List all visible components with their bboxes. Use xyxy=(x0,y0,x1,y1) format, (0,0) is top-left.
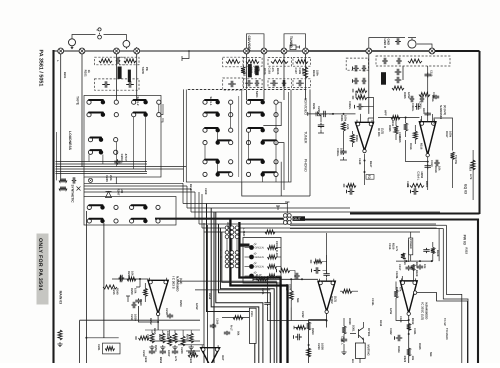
switch S6 row y221 xyxy=(130,219,161,223)
switch S6 row y207.4 xyxy=(130,205,161,209)
svg-text:R101: R101 xyxy=(83,70,87,77)
wire op5 right out xyxy=(417,293,468,363)
resistor R324 vertical xyxy=(407,348,411,356)
wire ic303b input xyxy=(186,350,200,352)
capacitor bottom row c xyxy=(172,350,178,355)
wire jack down xyxy=(246,54,248,100)
capacitor upper box out R xyxy=(412,188,419,194)
wire stair 6 xyxy=(219,224,271,363)
svg-text:S201: S201 xyxy=(255,91,259,98)
wire bank D right jog b xyxy=(278,143,284,196)
resistor R330 vertical xyxy=(342,326,346,334)
svg-text:C231: C231 xyxy=(261,288,264,295)
wire jack1 down xyxy=(60,54,62,180)
svg-text:R301: R301 xyxy=(340,115,343,122)
svg-text:R316: R316 xyxy=(409,143,412,150)
label connector pins xyxy=(241,244,250,247)
svg-text:10/50: 10/50 xyxy=(321,343,324,350)
resistor R302 vertical xyxy=(342,122,346,131)
svg-text:R106: R106 xyxy=(263,68,266,75)
capacitor C111 xyxy=(353,65,359,71)
capacitor C311 v xyxy=(341,337,347,343)
capacitor C103 xyxy=(245,80,253,86)
svg-text:R317: R317 xyxy=(445,131,448,138)
capacitor C313 h xyxy=(434,160,440,166)
svg-text:47k: 47k xyxy=(257,67,260,72)
wire bank D col to input line xyxy=(263,177,276,183)
svg-text:R319: R319 xyxy=(469,164,472,171)
capacitor chain C310 xyxy=(425,72,431,77)
svg-text:C232: C232 xyxy=(301,311,304,318)
resistor R326 vertical xyxy=(411,265,415,271)
diode input xyxy=(316,112,321,116)
svg-text:1k: 1k xyxy=(87,70,91,74)
capacitor C232 vertical xyxy=(264,301,270,307)
capacitor C112 xyxy=(362,65,367,71)
resistor R319 vertical xyxy=(471,160,475,170)
svg-text:C233: C233 xyxy=(317,343,320,350)
resistor R103 xyxy=(246,60,259,64)
wire connector hook up xyxy=(276,202,290,214)
svg-text:R213: R213 xyxy=(189,184,192,191)
dashed box tape rec network L xyxy=(95,57,126,65)
wire r304 xyxy=(344,131,353,149)
capacitor C201 xyxy=(116,58,121,64)
wire bank D col1 down xyxy=(248,132,250,159)
jack J107 xyxy=(281,48,287,54)
capacitor bottom row b xyxy=(160,350,166,355)
switch S3 row y142.6 xyxy=(203,140,233,144)
wire led row xyxy=(277,275,282,277)
wire bank C inner links xyxy=(205,132,218,172)
wire led row xyxy=(277,256,282,258)
box inner connector label xyxy=(249,308,256,343)
term r266 xyxy=(310,260,312,264)
switch S3 row y130.2 xyxy=(203,128,233,132)
svg-text:10k: 10k xyxy=(438,166,441,171)
resistor R112 xyxy=(408,59,422,63)
resistor R313 vertical xyxy=(404,123,408,131)
switch S3 row y161.8 xyxy=(203,160,233,164)
node ic303 in xyxy=(139,278,141,280)
box C221 xyxy=(103,343,121,354)
capacitor C107 xyxy=(296,80,304,86)
capacitor bottom row a xyxy=(149,350,155,355)
resistor R249 xyxy=(127,277,136,281)
resistor R111 xyxy=(356,89,367,93)
wire rail ic303 b xyxy=(195,289,270,291)
resistor R262 vertical xyxy=(289,291,293,300)
muting plug box xyxy=(290,45,296,50)
terminal r263 xyxy=(294,326,302,330)
resistor R202 xyxy=(124,59,136,63)
box main lower xyxy=(80,320,200,363)
wire op2 right xyxy=(434,118,453,151)
svg-text:PHONO: PHONO xyxy=(304,159,308,172)
svg-text:P301: P301 xyxy=(250,311,253,317)
svg-text:10/50: 10/50 xyxy=(134,314,137,321)
switch S4 row y102.2 xyxy=(246,100,278,104)
svg-text:C109: C109 xyxy=(298,68,301,75)
wire led left xyxy=(245,256,250,258)
terminal tone input xyxy=(307,112,309,116)
svg-text:C302L: C302L xyxy=(348,101,351,110)
svg-text:220k: 220k xyxy=(316,70,319,76)
switch S2 row y114.7 xyxy=(132,113,161,117)
term c322 xyxy=(394,336,396,340)
capacitor C115 xyxy=(382,58,388,64)
capacitor R249b xyxy=(103,285,117,289)
node op5 a xyxy=(408,319,410,321)
connector CN702 bus plug xyxy=(283,214,287,218)
svg-text:FROM D 407: FROM D 407 xyxy=(275,241,278,258)
svg-text:C303: C303 xyxy=(359,92,362,99)
svg-text:TUNER: TUNER xyxy=(304,131,308,144)
svg-text:R240: R240 xyxy=(139,299,142,306)
dashed box tape2 pb xyxy=(223,78,243,90)
svg-text:C314 L: C314 L xyxy=(417,171,420,180)
capacitor C118 xyxy=(395,77,402,83)
wire led left xyxy=(245,266,250,268)
resistor led R401 xyxy=(268,246,277,250)
label box mute L xyxy=(118,67,122,79)
switch S2 row y102.2 xyxy=(132,100,161,104)
svg-text:R325: R325 xyxy=(418,343,421,350)
svg-text:I C 303 S: I C 303 S xyxy=(172,276,176,289)
svg-text:C260: C260 xyxy=(216,318,219,325)
svg-text:C323: C323 xyxy=(399,316,402,323)
resistor R314 vertical xyxy=(413,131,417,140)
wire mesh to tone input xyxy=(329,113,333,115)
wire bus lower segment xyxy=(84,191,195,193)
wire jack3 down xyxy=(116,54,118,100)
resistor R205 xyxy=(226,60,240,64)
bracket CD/VIDEO jacks xyxy=(247,34,265,48)
svg-text:2.2k: 2.2k xyxy=(346,124,349,130)
wire left main border xyxy=(52,50,54,363)
svg-text:R318: R318 xyxy=(434,166,437,173)
svg-text:10/50: 10/50 xyxy=(403,258,406,265)
resistor R322 vertical xyxy=(431,247,435,253)
wire main h xyxy=(86,337,118,339)
svg-text:C401: C401 xyxy=(406,181,409,188)
wire nested inner right b xyxy=(443,229,468,364)
wire input ic302 xyxy=(253,278,318,280)
wire stair 7 xyxy=(220,228,274,363)
op-amp IC302 xyxy=(318,279,335,314)
resistor R111b xyxy=(356,96,367,100)
svg-text:10k: 10k xyxy=(411,356,414,361)
node ic302 a xyxy=(267,278,269,280)
svg-text:C209: C209 xyxy=(204,188,207,195)
svg-text:C216: C216 xyxy=(130,314,133,321)
svg-text:RY301: RY301 xyxy=(367,328,370,337)
capacitor C206 xyxy=(228,81,236,87)
resistor R323 vertical xyxy=(407,323,411,330)
label OUT black box xyxy=(293,216,306,221)
wire lower box top right thick xyxy=(304,220,478,364)
wire ic302 down xyxy=(309,320,327,364)
svg-text:L-SUR: L-SUR xyxy=(242,228,245,236)
svg-text:C220: C220 xyxy=(180,347,183,354)
svg-text:R258: R258 xyxy=(208,293,211,300)
capacitor C302 vertical xyxy=(318,123,324,129)
svg-text:MUTING: MUTING xyxy=(351,359,354,363)
resistor low3 vertical xyxy=(168,336,172,346)
svg-text:(2) (1/2): (2) (1/2) xyxy=(443,105,447,115)
resistor low5 vertical xyxy=(181,336,185,346)
label box tape2 a xyxy=(248,64,252,77)
resistor low2 vertical xyxy=(161,333,165,343)
wire r260 xyxy=(290,271,295,280)
wire bus segment xyxy=(56,168,148,170)
op-amp IC303a xyxy=(148,278,168,316)
capacitor C314 xyxy=(425,164,431,170)
svg-text:R322: R322 xyxy=(464,247,467,254)
node hpf xyxy=(405,117,407,119)
capacitor C119 xyxy=(357,104,364,110)
wire bus corner down xyxy=(194,192,196,219)
capacitor C113 xyxy=(353,78,359,84)
svg-text:R231: R231 xyxy=(312,103,315,110)
capacitor C319 v xyxy=(417,264,423,270)
svg-text:R329: R329 xyxy=(415,270,418,277)
svg-text:C320L: C320L xyxy=(395,271,398,279)
svg-text:LOUDNESS: LOUDNESS xyxy=(68,131,72,151)
svg-text:IC 301C (1/2): IC 301C (1/2) xyxy=(421,302,425,320)
svg-text:10k: 10k xyxy=(131,271,134,276)
wire right border upper box xyxy=(479,51,481,214)
wire phono load down xyxy=(402,66,404,80)
resistor ic303b in xyxy=(188,353,198,357)
wire bus A xyxy=(183,203,287,205)
led D403 xyxy=(249,264,254,269)
wire r322 xyxy=(432,242,434,261)
svg-text:56k: 56k xyxy=(237,331,240,336)
resistor R311 xyxy=(391,116,400,120)
svg-text:1/2W: 1/2W xyxy=(407,92,410,99)
svg-text:R249: R249 xyxy=(116,288,119,295)
wire connector inner links xyxy=(227,239,237,251)
svg-text:ONLY FOR PA 3504: ONLY FOR PA 3504 xyxy=(37,238,43,291)
dashed box phono load xyxy=(376,56,450,66)
svg-text:C101: C101 xyxy=(250,67,253,74)
svg-text:C322: C322 xyxy=(389,328,392,335)
jack J104 xyxy=(134,48,140,54)
capacitor C234 v xyxy=(323,272,329,277)
connector pins cluster2 xyxy=(225,251,229,255)
svg-text:C223: C223 xyxy=(189,357,192,363)
wire label box down xyxy=(410,232,412,261)
wire hook gnd tap xyxy=(182,51,189,61)
wire bottom h341 xyxy=(150,340,200,342)
resistor R107 xyxy=(296,60,309,64)
vertical label box power xyxy=(409,238,413,255)
wire fb ic303 xyxy=(139,306,159,330)
led D404 xyxy=(249,274,254,279)
capacitor C204 xyxy=(126,81,134,87)
resistor led R402 xyxy=(268,255,277,259)
svg-text:R109: R109 xyxy=(312,70,315,77)
svg-text:C103: C103 xyxy=(268,68,271,75)
wire c302 xyxy=(318,114,324,133)
wire p301 row xyxy=(222,317,249,319)
switch S4 row y174.4 xyxy=(246,172,278,176)
wire bus segment xyxy=(56,161,148,163)
wire r251 xyxy=(136,279,145,302)
resistor R321 vertical xyxy=(401,253,405,259)
wire ic302 fb xyxy=(268,279,327,320)
svg-text:R324: R324 xyxy=(397,346,400,353)
switch S5 row y207.4 xyxy=(87,205,118,209)
svg-text:56k: 56k xyxy=(296,298,299,303)
svg-text:TO MAIN: TO MAIN xyxy=(445,328,448,340)
resistor low4 vertical xyxy=(173,333,177,343)
resistor R201 xyxy=(99,59,112,63)
svg-text:PB: PB xyxy=(145,67,149,71)
switch S4 row y142.6 xyxy=(246,140,278,144)
svg-text:R311: R311 xyxy=(391,120,394,127)
transistor Q301 xyxy=(350,328,364,340)
capacitor C116 xyxy=(396,58,402,64)
wire stair 5 xyxy=(216,212,263,363)
wire switch bank C col3 down xyxy=(230,104,232,128)
wire ladder to op1 plus xyxy=(363,98,374,125)
jack J103 xyxy=(114,48,120,54)
wire bank D right jog a xyxy=(263,102,281,125)
terminal stub left ic303 xyxy=(126,296,130,302)
svg-text:C218: C218 xyxy=(165,308,168,315)
wire lower box top/bus thick xyxy=(155,218,283,220)
switch S4 row y161.8 xyxy=(246,160,278,164)
box separator switch mid xyxy=(241,89,243,182)
resistor R105 xyxy=(271,60,288,64)
jack J105 xyxy=(244,48,250,54)
wire led left xyxy=(245,275,250,277)
switch S3 row y102.2 xyxy=(203,100,233,104)
capacitor strip a xyxy=(210,324,216,329)
wire op5 top xyxy=(402,240,413,281)
wire bus corner down xyxy=(186,186,188,208)
wire bus B xyxy=(187,207,350,209)
wire bottom edge upper box xyxy=(350,213,480,215)
wire top right thick xyxy=(306,50,432,52)
svg-text:R401: R401 xyxy=(425,181,428,188)
capacitor C231 h xyxy=(294,273,300,279)
wire op5 fb down xyxy=(408,315,410,363)
svg-text:C321: C321 xyxy=(413,328,416,335)
wire input ic303 xyxy=(112,278,149,280)
resistor R206 vertical xyxy=(241,67,245,74)
resistor R304 vertical xyxy=(351,134,355,143)
wire r262 xyxy=(290,279,292,307)
svg-text:POWER: POWER xyxy=(409,239,412,249)
svg-text:47k: 47k xyxy=(271,68,274,73)
resistor upper box out L xyxy=(346,184,356,188)
svg-text:2.2k: 2.2k xyxy=(109,175,113,181)
capacitor bottom row d xyxy=(188,350,194,355)
wire op1 inputs xyxy=(361,114,374,122)
terminal ladder stubs xyxy=(352,67,354,71)
svg-text:R303: R303 xyxy=(354,91,357,98)
capacitor C117 xyxy=(395,69,402,75)
resistor R245 xyxy=(59,178,67,182)
svg-text:C248: C248 xyxy=(358,158,361,165)
svg-text:HPF: HPF xyxy=(384,110,388,116)
ground left low xyxy=(57,342,62,347)
wire input line tone xyxy=(308,113,356,115)
label box mute R xyxy=(128,70,131,82)
svg-text:CD/VIDEO: CD/VIDEO xyxy=(247,36,251,53)
svg-text:PA 3561 / 5051: PA 3561 / 5051 xyxy=(38,50,44,87)
svg-text:R307: R307 xyxy=(422,108,425,115)
wire rail ic303 a xyxy=(178,280,277,282)
svg-text:4.7k: 4.7k xyxy=(174,356,177,362)
svg-text:10/16: 10/16 xyxy=(253,67,256,74)
wire top input bus xyxy=(54,50,307,52)
svg-text:R257: R257 xyxy=(153,328,156,335)
jack J106 xyxy=(261,48,267,54)
wire op5 left xyxy=(340,290,358,292)
term c236 xyxy=(311,269,313,273)
dashed box tape rec network R xyxy=(120,57,140,65)
capacitor C204L xyxy=(114,159,120,165)
wire q301 xyxy=(360,322,364,363)
wire phono left to B symbol xyxy=(72,35,96,39)
svg-text:TO SP: TO SP xyxy=(443,318,446,326)
svg-text:C222: C222 xyxy=(144,356,147,363)
gnd c311 xyxy=(341,350,346,355)
svg-text:(1/2): (1/2) xyxy=(334,296,338,302)
capacitor C318 v xyxy=(423,248,429,253)
terminal bottom term xyxy=(135,336,137,340)
svg-text:1/2W: 1/2W xyxy=(389,308,392,315)
wire bus F xyxy=(204,231,420,233)
svg-text:R108: R108 xyxy=(301,68,304,75)
wire bus segment f xyxy=(56,173,148,175)
svg-text:C319L: C319L xyxy=(371,298,374,306)
wire bus C xyxy=(191,211,440,213)
resistor R265 vertical xyxy=(307,348,311,357)
capacitor op2 aux xyxy=(410,96,415,102)
resistor bottom term xyxy=(139,336,150,340)
capacitor C218 v xyxy=(167,313,173,318)
box function switch left xyxy=(84,96,161,178)
svg-text:OUT: OUT xyxy=(221,355,224,361)
svg-text:R252: R252 xyxy=(149,318,152,325)
jumper plug B symbol xyxy=(97,28,102,39)
svg-text:GREEN: GREEN xyxy=(255,266,264,269)
wire ic303 low chain xyxy=(145,329,200,331)
svg-text:R320: R320 xyxy=(392,243,395,250)
svg-text:(1/2): (1/2) xyxy=(381,128,385,134)
node input a xyxy=(332,113,334,115)
wire bus D xyxy=(199,223,436,225)
svg-text:1000P: 1000P xyxy=(166,331,169,339)
svg-text:R262: R262 xyxy=(285,284,288,291)
switch S1 row tape a y102.2 xyxy=(87,100,119,104)
svg-text:C215: C215 xyxy=(112,288,115,295)
svg-text:R239: R239 xyxy=(127,271,130,278)
capacitor line gnd xyxy=(395,38,401,44)
wire bus lower segment xyxy=(84,188,191,190)
svg-text:100k: 100k xyxy=(449,131,452,138)
wire y344 link xyxy=(178,344,204,346)
svg-text:EQ 03: EQ 03 xyxy=(464,184,468,194)
op-amp IC301b xyxy=(419,119,436,157)
label box tape2 b xyxy=(255,66,259,76)
wire op1 output down xyxy=(340,154,365,185)
